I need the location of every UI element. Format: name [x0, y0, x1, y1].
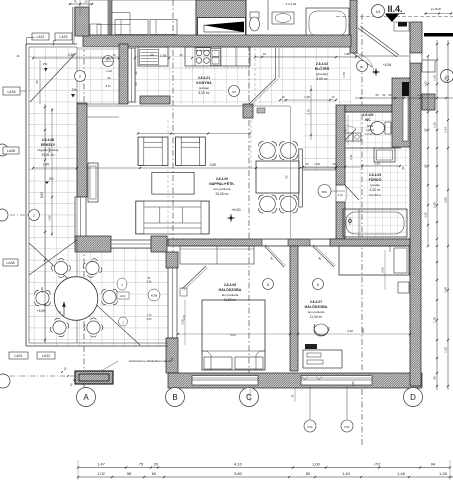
wc-bath top wall: [345, 105, 392, 112]
svg-text:1,02 m²: 1,02 m²: [366, 129, 375, 132]
svg-text:NAPPALI+ÉTK.: NAPPALI+ÉTK.: [209, 181, 235, 186]
svg-text:zártszelvény ablakokban samott: zártszelvény ablakokban samott: [129, 359, 172, 363]
axis D line: [409, 22, 411, 388]
grid bubble C: [240, 388, 259, 407]
svg-text:3,48: 3,48: [347, 329, 353, 333]
svg-text:5,00: 5,00: [230, 333, 236, 337]
section line through dining: [290, 106, 292, 239]
svg-text:98: 98: [424, 164, 428, 168]
wc-bath separating wall: [345, 147, 401, 149]
svg-text:2.8.4.00: 2.8.4.00: [216, 177, 228, 181]
micro dims below wall C area: [249, 388, 251, 402]
bedroom1 door leaf: [264, 246, 284, 268]
kitchen counter: [185, 47, 250, 66]
bedroom2 bed: [339, 246, 409, 275]
svg-text:20: 20: [84, 0, 88, 4]
svg-text:LA01: LA01: [15, 354, 23, 358]
upper unit closet: [97, 25, 130, 36]
svg-text:WC: WC: [365, 118, 371, 122]
bedroom2 desk: [303, 350, 342, 368]
svg-text:h≈2,40 m: h≈2,40 m: [365, 133, 375, 136]
entry bubble B1: [357, 61, 368, 72]
svg-text:1,00: 1,00: [312, 462, 321, 467]
svg-text:5,60 m²: 5,60 m²: [316, 77, 328, 81]
corridor/bedroom separating wall: [168, 239, 410, 246]
bedroom2 night stand: [398, 282, 409, 293]
svg-text:95: 95: [424, 128, 428, 132]
bottom exterior wall: [168, 373, 422, 388]
bottom dimension row 2: [78, 476, 453, 478]
top exterior wall: [83, 35, 351, 47]
balcony railing bottom: [26, 345, 168, 347]
living south wall block right: [151, 236, 167, 252]
apartment marker triangle: [385, 14, 399, 22]
hall inner dashed lines: [254, 48, 256, 105]
svg-text:10: 10: [332, 162, 336, 166]
svg-text:K6b: K6b: [345, 425, 350, 429]
svg-text:2.8.424: 2.8.424: [363, 113, 374, 117]
left edge axis bubble low: [0, 374, 10, 388]
svg-text:45: 45: [433, 376, 437, 380]
top wall inner strip: [77, 47, 135, 50]
axis A line: [83, 46, 85, 388]
upper-left dim 2,68: [33, 57, 119, 59]
svg-text:1,47: 1,47: [97, 462, 106, 467]
svg-text:LA32: LA32: [42, 354, 50, 358]
living south wall block left: [75, 236, 111, 252]
svg-text:lam.parketta: lam.parketta: [222, 293, 239, 297]
svg-text:8: 8: [267, 283, 269, 287]
svg-text:ERKÉLY: ERKÉLY: [41, 142, 56, 147]
bedroom2 bottom window: [301, 376, 372, 386]
svg-text:3,80: 3,80: [234, 471, 243, 476]
svg-text:1,70: 1,70: [342, 72, 346, 78]
svg-text:80: 80: [306, 471, 311, 476]
upper unit main room: [112, 0, 196, 36]
svg-text:KO98: KO98: [151, 295, 158, 298]
hall vertical dim 1,70: [310, 85, 312, 140]
kitchen-hall door leaf: [249, 78, 276, 104]
boxed label LA31: [32, 33, 49, 40]
bathroom tiled floor: [342, 148, 408, 239]
svg-text:10: 10: [112, 53, 116, 57]
kitchen tiled floor: [135, 48, 251, 104]
svg-text:1,68: 1,68: [304, 95, 310, 99]
svg-text:2,95: 2,95: [48, 147, 52, 153]
tv cabinet: [88, 163, 98, 202]
horizontal dashed line top right: [336, 16, 453, 18]
hall bottom dim line: [280, 99, 336, 101]
svg-text:HÁLÓSZOBA: HÁLÓSZOBA: [219, 287, 242, 292]
balcony tiled floor upper: [28, 47, 119, 104]
svg-text:4,50: 4,50: [210, 163, 217, 167]
svg-text:KONYHA: KONYHA: [196, 81, 212, 85]
svg-text:2.8.4.03: 2.8.4.03: [369, 173, 381, 177]
svg-text:2: 2: [79, 75, 81, 79]
svg-text:90: 90: [401, 166, 405, 170]
svg-text:LA38: LA38: [7, 261, 15, 265]
bubble balcony 2 lower: [29, 210, 40, 221]
entrance door leaf: [353, 53, 372, 67]
svg-text:2,10: 2,10: [338, 195, 343, 197]
svg-text:8,50: 8,50: [40, 192, 44, 198]
bathroom door swing: [345, 185, 359, 200]
left edge axis bubble upper: [0, 144, 8, 156]
svg-text:LA38: LA38: [7, 149, 15, 153]
svg-text:greslap: greslap: [199, 86, 209, 90]
svg-text:4,6: 4,6: [376, 10, 381, 14]
stair block hatched: [196, 0, 246, 42]
armchair 1: [138, 137, 168, 166]
balcony inner edge line: [76, 47, 78, 343]
shaft wall black bar: [402, 82, 409, 96]
upper unit left room: [89, 0, 108, 36]
svg-text:B: B: [172, 393, 177, 402]
svg-text:2,95: 2,95: [40, 287, 44, 293]
svg-text:2%: 2%: [49, 177, 54, 181]
horizontal axis line left mid: [0, 214, 30, 216]
boxed label LA36: [3, 87, 20, 95]
svg-text:3,50: 3,50: [181, 319, 185, 325]
bed2 pillow: [394, 248, 407, 273]
top right axis bubble: [372, 5, 385, 18]
svg-text:K2: K2: [232, 90, 236, 94]
wc tiled floor: [345, 112, 401, 148]
dim hall bottom 1,00: [303, 166, 360, 168]
svg-text:1,44: 1,44: [444, 127, 448, 133]
svg-text:(2/98): (2/98): [367, 125, 374, 128]
svg-text:A: A: [83, 393, 89, 402]
bottom dim extension lines: [77, 460, 79, 480]
svg-text:LA33: LA33: [60, 35, 68, 39]
bedroom1 bottom window: [192, 376, 258, 386]
horizontal axis line left lower: [0, 375, 78, 377]
kitchen dashed worktop edge: [185, 67, 250, 69]
svg-text:B01: B01: [322, 190, 328, 194]
upper unit toilet: [250, 12, 259, 18]
bedroom1 west wall upper: [166, 252, 178, 268]
bathtub tap section: [358, 209, 360, 237]
svg-text:24,06 m²: 24,06 m²: [215, 192, 229, 196]
fridge shelves: [140, 50, 159, 65]
black match line top right: [424, 33, 453, 37]
svg-text:8 %: 8 %: [106, 84, 111, 88]
bubble 2 balcony: [75, 71, 86, 82]
svg-text:2,05: 2,05: [147, 318, 152, 321]
balcony slope arrow: [63, 304, 65, 316]
small circle bubble balcony lower: [119, 317, 128, 326]
bubble K2: [229, 86, 240, 97]
bedroom1 vert dim: [184, 300, 186, 345]
left chain extra: [51, 108, 53, 236]
svg-text:63: 63: [388, 93, 392, 97]
svg-text:1,25: 1,25: [433, 122, 437, 128]
svg-text:3,05: 3,05: [444, 197, 448, 203]
svg-text:lam.parketta: lam.parketta: [213, 187, 230, 191]
dining chairs bottom: [260, 196, 276, 212]
shaft slot: [403, 96, 408, 141]
svg-text:4,30: 4,30: [352, 381, 355, 386]
svg-text:2.8.4.07: 2.8.4.07: [310, 300, 322, 304]
svg-text:25: 25: [375, 93, 379, 97]
upper unit bed 1: [115, 20, 148, 35]
svg-text:(greslap): (greslap): [316, 72, 328, 76]
upper unit washbasin: [272, 12, 294, 24]
svg-text:1,40: 1,40: [43, 163, 49, 167]
axis C line: [248, 45, 250, 388]
svg-text:1,70: 1,70: [307, 109, 311, 115]
upper unit bed 2: [150, 20, 177, 35]
boxed label LA01: [9, 352, 28, 359]
sofa: [136, 201, 210, 234]
svg-text:K6a: K6a: [308, 425, 313, 429]
svg-text:lam.parketta: lam.parketta: [308, 310, 325, 314]
right vertical dim chain 2: [447, 40, 449, 390]
corridor dashed: [167, 120, 169, 239]
balcony slope diagonal lower: [29, 243, 140, 345]
wc vertical dim: [347, 115, 349, 145]
bedroom1 west window: [168, 268, 177, 338]
svg-text:16: 16: [16, 54, 20, 58]
bath bottom wall: [330, 239, 410, 246]
grid bubble D: [404, 388, 423, 407]
svg-text:1,40: 1,40: [342, 471, 351, 476]
kitchen counter divider: [194, 47, 196, 66]
svg-text:11,30 m²: 11,30 m²: [310, 315, 324, 319]
kitchen fridge cabinet: [138, 47, 168, 66]
hall floor edge line: [303, 169, 336, 171]
svg-text:10: 10: [263, 52, 266, 56]
wc toilet: [385, 122, 391, 134]
svg-text:90: 90: [134, 71, 138, 74]
svg-text:45: 45: [179, 53, 183, 57]
svg-text:+5,99: +5,99: [37, 309, 46, 313]
svg-text:1,00: 1,00: [106, 69, 112, 73]
boxed label LA38: [3, 147, 19, 154]
svg-text:B1: B1: [360, 65, 364, 69]
left edge axis bubble mid: [0, 209, 8, 221]
kitchen-hall door post: [275, 48, 277, 78]
bedrooms interior dim chain: [178, 333, 410, 335]
bedroom2 vert dim: [384, 250, 386, 290]
sideboard bench: [299, 149, 303, 207]
svg-text:2.8.4.02: 2.8.4.02: [316, 62, 328, 66]
svg-text:2: 2: [33, 214, 35, 218]
small oval bubble balcony: [117, 278, 127, 290]
bedroom2 door opening: [310, 240, 334, 246]
svg-text:2,35: 2,35: [433, 317, 437, 323]
coffee table: [152, 172, 194, 194]
grid bubble A: [77, 388, 96, 407]
svg-text:2,60: 2,60: [433, 202, 437, 208]
kitchen sink: [211, 49, 221, 66]
svg-text:2.8.4.06: 2.8.4.06: [224, 283, 236, 287]
leader lines to LA labels: [27, 38, 35, 46]
svg-text:98: 98: [127, 471, 132, 476]
entry threshold black bar: [398, 22, 407, 27]
svg-text:+6,36: +6,36: [383, 63, 392, 67]
bedroom1 wardrobe: [180, 246, 254, 264]
dining table: [256, 161, 299, 193]
svg-text:1,46: 1,46: [417, 93, 423, 97]
grid bubble B: [166, 388, 185, 407]
svg-text:HÁLÓSZOBA: HÁLÓSZOBA: [305, 304, 328, 309]
bedroom2 door leaf: [312, 246, 334, 268]
balcony slope diagonal upper: [30, 53, 76, 102]
svg-text:4,10: 4,10: [234, 462, 243, 467]
dim 1,88 hall top: [255, 56, 356, 58]
round table: [54, 277, 98, 321]
hall lower tiled floor: [303, 105, 336, 170]
dining chairs top: [260, 143, 276, 159]
living dashed ceiling line: [87, 105, 290, 107]
svg-text:1,10: 1,10: [147, 314, 152, 317]
svg-text:90: 90: [107, 76, 111, 80]
hall tiled floor: [251, 48, 351, 105]
living room left wall: [77, 103, 87, 197]
living south window to balcony: [111, 240, 151, 248]
stair inner box: [198, 18, 246, 38]
svg-text:75: 75: [73, 0, 77, 4]
svg-text:h=2,40 m: h=2,40 m: [369, 193, 382, 197]
window bubble 1/14: [103, 56, 114, 67]
svg-text:2.8.4.01: 2.8.4.01: [198, 76, 210, 80]
bedroom1 door opening: [262, 240, 288, 246]
boxed label LA32: [37, 352, 55, 359]
svg-text:2%: 2%: [43, 62, 48, 66]
svg-text:60: 60: [134, 82, 138, 85]
svg-text:FÜRDŐ: FÜRDŐ: [369, 177, 382, 182]
right pier white box: [422, 60, 435, 72]
boxed label LA38: [3, 259, 18, 266]
svg-text:greslap: greslap: [370, 183, 380, 187]
svg-text:60: 60: [152, 471, 157, 476]
svg-text:jm 26,00: jm 26,00: [430, 7, 442, 11]
entry corridor edge lines: [355, 55, 409, 57]
kitchen balcony window: [128, 48, 135, 102]
kitchen top dims: [134, 57, 136, 59]
right pier block hatched: [422, 94, 435, 110]
armchair 2: [175, 137, 205, 166]
bathroom washbasin: [374, 148, 395, 162]
svg-text:II.4.: II.4.: [387, 4, 402, 14]
dim 1,30 bath: [362, 165, 400, 167]
K6a stub line: [309, 386, 311, 420]
svg-text:1,35: 1,35: [444, 347, 448, 353]
svg-text:1,00: 1,00: [361, 328, 365, 334]
wc handbasin: [345, 133, 353, 141]
entry area stair diagonals: [358, 28, 397, 57]
dim balcony 1,40: [33, 167, 77, 169]
svg-text:1,43: 1,43: [424, 81, 428, 87]
right vertical dim chain 1: [436, 40, 438, 390]
small boxed labels balcony: [117, 292, 129, 299]
svg-text:LA36: LA36: [8, 90, 16, 94]
stair black wedge: [204, 22, 244, 33]
bubble bedroom1: [263, 279, 274, 290]
svg-text:1,50: 1,50: [444, 77, 448, 83]
top wall left vertical segment: [75, 7, 89, 36]
svg-text:55: 55: [35, 80, 39, 84]
svg-text:5,11: 5,11: [349, 154, 353, 160]
svg-text:+6,00: +6,00: [231, 208, 240, 212]
top-right hatched block: [410, 22, 422, 53]
svg-text:HU2: HU2: [120, 294, 126, 298]
kitchen peninsula wall: [140, 96, 170, 104]
svg-text:1,88: 1,88: [344, 52, 350, 56]
kitchen-hall pillar: [243, 104, 253, 118]
wall between bedrooms: [290, 246, 298, 371]
boxed label LA33: [55, 33, 72, 40]
upper unit bath room walls: [245, 0, 247, 42]
svg-text:10: 10: [305, 162, 309, 166]
bedroom1 corner diagonal unit: [182, 266, 206, 289]
dim 4,50 living: [86, 167, 336, 169]
balcony railing left: [25, 44, 27, 346]
svg-text:1,55: 1,55: [424, 212, 428, 218]
svg-text:1,00: 1,00: [314, 162, 320, 166]
bubble bedroom2: [313, 279, 324, 290]
right chain 3: [427, 56, 429, 246]
svg-text:4,00 m²: 4,00 m²: [369, 188, 381, 192]
svg-text:ELŐTÉR: ELŐTÉR: [315, 66, 330, 71]
svg-text:21: 21: [382, 93, 386, 97]
svg-text:LA31: LA31: [37, 35, 45, 39]
svg-text:94: 94: [431, 462, 436, 467]
kitchen stove burners: [196, 50, 202, 56]
upper unit bathtub: [306, 8, 349, 39]
upper unit inner wall: [108, 0, 112, 36]
living chain line y133: [138, 133, 250, 135]
svg-text:2,00: 2,00: [381, 267, 385, 273]
svg-text:1,30: 1,30: [374, 162, 380, 166]
bath west wall lower: [336, 202, 345, 239]
right edge bubble: [441, 70, 453, 83]
right pier white box: [410, 53, 422, 63]
upper unit wall x351: [350, 0, 357, 53]
svg-text:1,46: 1,46: [397, 471, 406, 476]
top dimension marks: [69, 3, 93, 5]
svg-text:1,30: 1,30: [433, 75, 437, 81]
dim line wc top: [355, 97, 453, 99]
svg-text:5,03 m²: 5,03 m²: [198, 91, 210, 95]
bedroom1 west wall lower: [166, 338, 178, 373]
bedroom2 chair: [314, 324, 329, 335]
bottom dimension row 1: [78, 467, 450, 469]
shaft wall block: [392, 78, 410, 147]
living balcony door/window: [75, 197, 86, 240]
svg-text:1,02: 1,02: [97, 471, 106, 476]
svg-text:8: 8: [317, 283, 319, 287]
axis B line: [172, 0, 174, 388]
svg-text:2,68: 2,68: [68, 53, 75, 57]
svg-text:2.ti.4.09: 2.ti.4.09: [286, 2, 297, 6]
K6b stub line: [346, 386, 348, 420]
left vertical dim chain: [44, 104, 46, 343]
svg-text:1,58: 1,58: [160, 54, 167, 58]
top right mini dim row: [424, 13, 452, 15]
svg-text:D: D: [410, 393, 416, 402]
bathtub: [343, 209, 407, 237]
svg-text:1,28: 1,28: [439, 471, 448, 476]
balcony chairs: [50, 257, 72, 279]
svg-text:60: 60: [150, 53, 154, 57]
balcony tiled floor lower: [28, 240, 168, 346]
svg-text:2.8.4.66: 2.8.4.66: [42, 138, 54, 142]
svg-text:2,88: 2,88: [444, 287, 448, 293]
left lower axis ticks: [61, 371, 63, 373]
svg-text:95: 95: [344, 128, 348, 132]
